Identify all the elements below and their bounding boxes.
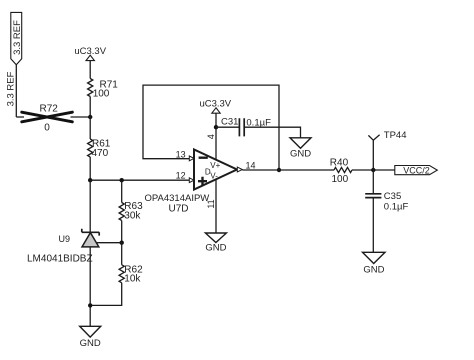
power flag uC3.3V (left) [74,46,106,61]
svg-text:GND: GND [363,264,384,275]
wire R40 to node [352,169,395,171]
pin 12 arrowhead [189,178,194,183]
svg-text:VCC/2: VCC/2 [403,165,430,175]
svg-text:100: 100 [332,174,349,185]
junction node C (U9 tap) [120,241,124,245]
diode U9 LM4041 shunt reference [82,229,99,247]
op-amp plus marker [198,177,207,186]
wire U9 cathode to bottom node [89,247,91,326]
resistor R61 [88,139,93,157]
wire 3.3 REF to R72 [16,116,24,118]
wire C35 to GND [372,198,374,253]
svg-text:R72: R72 [40,103,59,114]
svg-text:100: 100 [93,89,110,100]
wire node B to R63 [121,180,123,202]
svg-text:12: 12 [176,170,186,180]
svg-text:V-: V- [210,171,218,180]
resistor R71 [88,79,93,97]
junction node VCC/2 [371,168,375,172]
wire node to C31 [216,126,239,128]
power flag uC3.3V (op-amp supply) [199,98,231,113]
wire node A to U9 anode [89,180,91,232]
pin 11 wire (V- supply) [215,179,217,233]
svg-text:V+: V+ [210,161,220,170]
svg-text:U9: U9 [59,234,71,244]
net flag 3.3 REF [11,12,23,64]
svg-text:4: 4 [206,134,216,139]
wire R62 to bottom node [90,283,122,306]
ground GND (bottom left) [80,326,101,349]
svg-text:0.1µF: 0.1µF [384,202,409,213]
svg-text:GND: GND [205,242,226,253]
junction bottom node [88,303,92,307]
svg-text:U7D: U7D [168,204,188,215]
svg-text:0: 0 [44,123,50,134]
wire 3.3 REF vertical [15,64,17,117]
pin 13 arrowhead [189,156,194,161]
svg-text:14: 14 [246,160,256,170]
resistor R72 (0 ohm bowtie) [22,112,73,122]
svg-text:R40: R40 [330,157,349,168]
op-amp minus marker [199,156,208,158]
wire node A to op-amp pin 12 [90,179,189,181]
svg-text:11: 11 [206,199,216,208]
capacitor C31 [239,118,244,136]
net port VCC/2 [395,166,438,175]
svg-text:3.3 REF: 3.3 REF [12,20,23,55]
wire R72 to node [71,116,91,118]
pin 4 wire (V+ supply) [215,113,217,160]
svg-text:GND: GND [80,338,101,349]
resistor R63 [119,203,124,221]
wire uC3.3V to R71 [89,61,91,79]
resistor R62 [119,265,124,283]
resistor R40 [334,167,352,172]
wire C31 to GND [244,127,300,138]
svg-text:C31: C31 [221,116,238,127]
wire R63 to node C [121,221,123,243]
svg-text:470: 470 [92,148,109,159]
ground GND (C35) [363,252,386,275]
svg-text:30k: 30k [124,210,141,221]
wire R71 to node [89,97,91,118]
wire R61 to node A [89,157,91,180]
ground GND (C31) [290,138,311,160]
svg-text:3.3 REF: 3.3 REF [6,71,17,106]
junction output node [277,168,281,172]
wire U9 tap to node C [97,242,122,244]
svg-text:GND: GND [290,148,311,159]
svg-text:10k: 10k [124,274,141,285]
test point TP44 [368,135,379,170]
svg-text:13: 13 [176,150,186,160]
junction node B (top of R63) [120,178,124,182]
junction node R72/R71/R61 [88,115,92,119]
svg-text:LM4041BIDBZ: LM4041BIDBZ [27,254,93,265]
junction node A [88,178,92,182]
svg-text:OPA4314AIPW: OPA4314AIPW [145,193,210,204]
wire node to R61 [89,117,91,139]
feedback wire output to pin 13 [143,85,279,170]
junction C31 node [214,125,218,129]
wire node C to R62 [121,243,123,265]
ground GND (op-amp V-) [205,233,226,253]
pin 14 output arrowhead [237,167,242,172]
svg-text:TP44: TP44 [384,130,407,141]
svg-text:C35: C35 [384,191,401,202]
wire output to R40 [242,169,334,171]
op-amp U7D [194,150,237,190]
wire node to C35 [372,170,374,194]
capacitor C35 [365,194,381,198]
